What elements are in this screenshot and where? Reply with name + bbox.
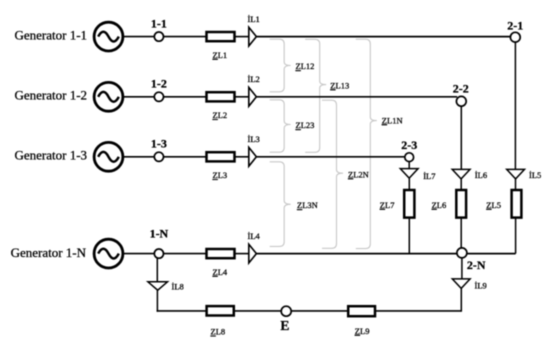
mutual impedance brace ZL13 (305, 39, 326, 152)
wire impedance ZL4 to arrow IL4 (235, 253, 249, 255)
svg-text:1-N: 1-N (150, 226, 169, 240)
node 1-2 (154, 92, 163, 101)
svg-text:2-2: 2-2 (453, 81, 469, 95)
wire impedance ZL6 to node 2-N (460, 218, 462, 249)
mutual impedance brace ZL3N (270, 162, 291, 247)
svg-text:ZL9: ZL9 (355, 326, 370, 336)
wire arrow IL2 to node 2-2 (256, 96, 457, 98)
wire generator G1-1 to node 1-1 (123, 36, 154, 38)
wire node 2-3 down to arrow IL7 (408, 162, 410, 169)
wire generator G1-N to node 1-N (123, 253, 154, 255)
svg-text:2-N: 2-N (467, 258, 486, 272)
svg-text:İL8: İL8 (172, 282, 184, 292)
svg-text:1-2: 1-2 (151, 77, 167, 91)
node E (281, 306, 291, 316)
svg-text:2-1: 2-1 (507, 19, 523, 33)
wire impedance ZL5 to bus 2-N (515, 218, 517, 254)
wire arrow IL3 to node 2-3 (256, 156, 405, 158)
generator G1-3 (AC source) (94, 142, 123, 171)
svg-text:Generator 1-N: Generator 1-N (11, 245, 87, 260)
svg-text:ZL1N: ZL1N (382, 115, 403, 125)
svg-text:ZL8: ZL8 (211, 327, 226, 337)
mutual impedance brace ZL1N (356, 39, 377, 248)
current arrow IL9 (452, 279, 470, 289)
current arrow IL2 (249, 87, 257, 106)
node 1-1 (154, 32, 163, 41)
impedance ZL2 (207, 92, 235, 101)
wire node 2-1 down to arrow IL5 (514, 42, 516, 169)
svg-text:İL9: İL9 (475, 280, 487, 290)
svg-text:İL4: İL4 (248, 231, 261, 241)
svg-text:ZL3N: ZL3N (297, 200, 318, 210)
wire impedance ZL7 to bus 2-N (408, 218, 410, 254)
svg-text:İL3: İL3 (248, 134, 260, 144)
svg-text:İL6: İL6 (475, 170, 487, 180)
svg-text:İL5: İL5 (529, 170, 541, 180)
svg-text:Generator 1-3: Generator 1-3 (15, 148, 88, 163)
wire impedance ZL3 to arrow IL3 (235, 156, 249, 158)
svg-text:ZL13: ZL13 (330, 80, 349, 90)
svg-text:Generator 1-1: Generator 1-1 (15, 27, 88, 42)
current arrow IL4 (249, 244, 257, 263)
generator G1-N (AC source) (94, 239, 123, 268)
svg-text:ZL4: ZL4 (213, 267, 228, 277)
wire node 2-N down to arrow IL9 (461, 258, 463, 279)
svg-text:ZL6: ZL6 (432, 200, 447, 210)
svg-text:ZL7: ZL7 (380, 200, 395, 210)
wire node 1-3 to impedance ZL3 (164, 156, 207, 158)
impedance ZL9 (348, 306, 375, 316)
impedance ZL3 (207, 152, 235, 161)
svg-text:ZL12: ZL12 (296, 61, 315, 71)
wire arrow IL9 to bottom bus (460, 288, 462, 311)
wire arrow IL8 to bottom bus (156, 290, 158, 312)
svg-text:1-1: 1-1 (151, 16, 167, 30)
svg-text:İL1: İL1 (248, 14, 260, 24)
wire impedance ZL1 to arrow IL1 (235, 36, 249, 38)
svg-text:ZL1: ZL1 (213, 50, 228, 60)
wire generator G1-2 to node 1-2 (123, 96, 154, 98)
wire node 1-N down to arrow IL8 (156, 258, 158, 282)
svg-text:ZL5: ZL5 (486, 200, 501, 210)
wire impedance ZL2 to arrow IL2 (235, 96, 249, 98)
svg-text:Generator 1-2: Generator 1-2 (15, 88, 88, 103)
svg-text:ZL23: ZL23 (296, 120, 315, 130)
impedance ZL1 (207, 32, 235, 41)
node 2-3 (405, 153, 414, 162)
wire node 1-N to impedance ZL4 (164, 253, 207, 255)
wire node 1-2 to impedance ZL2 (164, 96, 207, 98)
wire arrow IL6 to impedance ZL6 (460, 179, 462, 190)
wire arrow IL5 to impedance ZL5 (515, 179, 517, 190)
svg-text:2-3: 2-3 (401, 138, 417, 152)
svg-text:ZL2N: ZL2N (348, 169, 369, 179)
svg-text:ZL2: ZL2 (213, 110, 228, 120)
mutual impedance brace ZL23 (270, 100, 291, 152)
current arrow IL7 (400, 169, 418, 179)
current arrow IL6 (452, 169, 470, 179)
svg-text:İL2: İL2 (248, 74, 260, 84)
node 1-3 (154, 152, 163, 161)
wire bus 2-N (arrow IL4 to riser of ZL5) (256, 253, 515, 255)
mutual impedance brace ZL12 (270, 39, 291, 92)
wire generator G1-3 to node 1-3 (123, 156, 154, 158)
svg-text:ZL3: ZL3 (213, 170, 228, 180)
svg-text:İL7: İL7 (423, 171, 435, 181)
wire arrow IL7 to impedance ZL7 (408, 178, 410, 190)
mutual impedance brace ZL2N (322, 100, 343, 248)
current arrow IL8 (148, 282, 168, 290)
node 2-2 (456, 96, 466, 106)
wire node 2-2 down to arrow IL6 (460, 106, 462, 169)
current arrow IL3 (249, 147, 257, 166)
svg-text:E: E (280, 318, 289, 333)
wire arrow IL1 to node 2-1 (256, 36, 510, 38)
wire bottom bus (ground return, node E) (157, 310, 462, 312)
current arrow IL1 (249, 27, 257, 46)
generator G1-2 (AC source) (94, 82, 123, 111)
impedance ZL5 (512, 190, 522, 218)
svg-text:1-3: 1-3 (151, 137, 167, 151)
impedance ZL7 (404, 190, 414, 218)
impedance ZL4 (207, 249, 235, 258)
node 2-1 (510, 32, 520, 42)
wire node 1-1 to impedance ZL1 (164, 36, 207, 38)
node 2-N (457, 248, 467, 258)
generator G1-1 (AC source) (94, 22, 123, 51)
node 1-N (154, 249, 163, 258)
current arrow IL5 (507, 169, 525, 179)
impedance ZL8 (207, 306, 234, 315)
impedance ZL6 (456, 190, 466, 218)
